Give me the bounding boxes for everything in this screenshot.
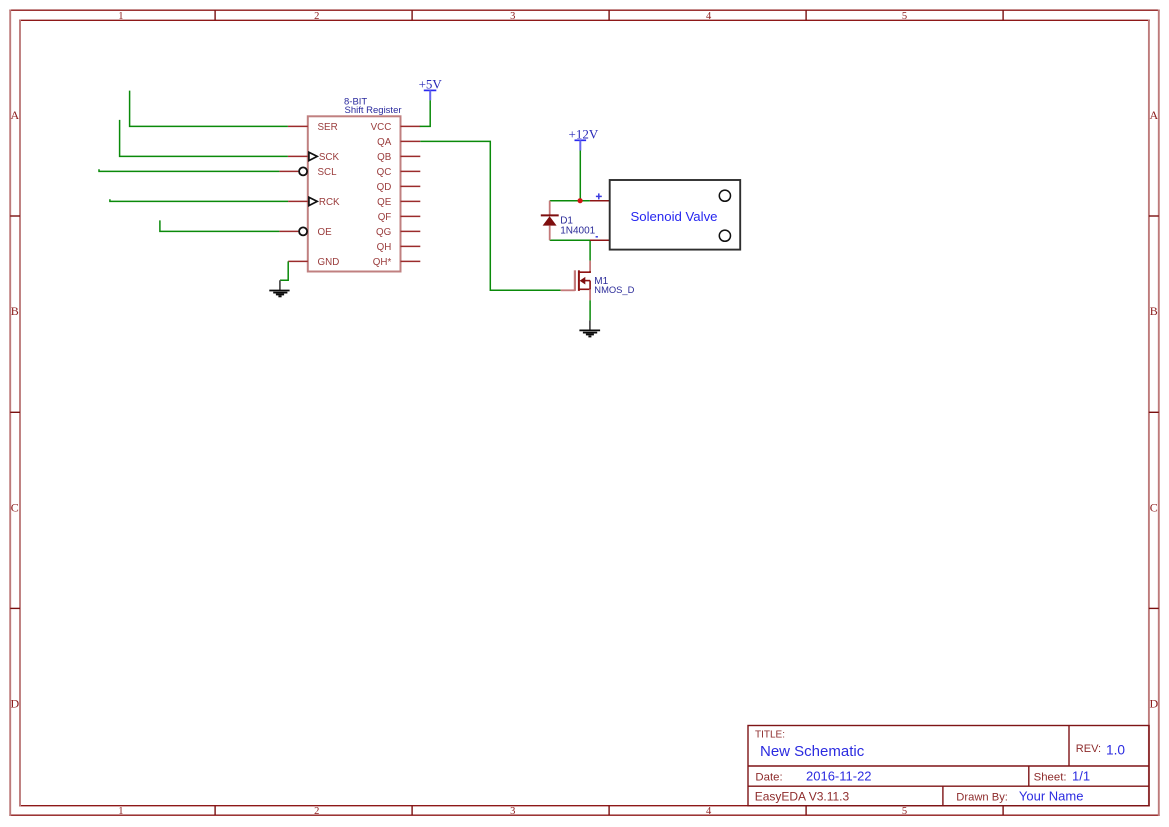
wire +12V down to node (579, 151, 581, 201)
diode D1 bottom pin (549, 226, 551, 241)
wire diode bottom (550, 239, 590, 241)
transistor M1 gate pin (561, 289, 575, 291)
svg-text:SCK: SCK (319, 152, 340, 163)
transistor M1 bulk lead + arrow (585, 280, 591, 282)
svg-text:VCC: VCC (371, 122, 392, 133)
svg-text:4: 4 (706, 11, 712, 22)
svg-text:B: B (11, 304, 19, 318)
svg-text:2016-11-22: 2016-11-22 (806, 769, 872, 784)
ground symbol (M1) (579, 330, 600, 336)
pin QH* (401, 260, 421, 262)
pin SCL (inverted) (279, 170, 298, 172)
ground symbol (IC) (269, 291, 289, 297)
solenoid valve pin + (590, 200, 610, 202)
svg-text:QA: QA (377, 137, 392, 148)
ruler letters right (1149, 108, 1158, 711)
label + (596, 193, 602, 199)
svg-text:RCK: RCK (319, 197, 340, 208)
ground symbol stub (M1) (589, 320, 591, 330)
pin VCC (401, 125, 421, 127)
solenoid valve hole top (719, 190, 730, 201)
pin SCK (clock) (288, 155, 308, 157)
pin QC (401, 170, 421, 172)
svg-text:Shift Register: Shift Register (345, 105, 402, 116)
svg-text:QC: QC (377, 167, 392, 178)
ruler ticks bottom (215, 806, 1003, 816)
title block frame (748, 726, 1149, 806)
diode D1 top pin (549, 201, 551, 216)
svg-text:OE: OE (318, 227, 333, 238)
svg-text:A: A (1149, 108, 1158, 122)
pin SER (288, 125, 308, 127)
transistor M1 drain lead (579, 271, 590, 272)
svg-text:5: 5 (902, 11, 907, 22)
svg-text:QH: QH (377, 242, 392, 253)
wire to SER (130, 91, 288, 127)
ground symbol stub (IC) (279, 280, 281, 290)
pin RCK (clock) (288, 200, 308, 202)
ruler numbers top (118, 11, 907, 22)
wire node to diode top (550, 200, 590, 202)
wire VCC to +5V (420, 100, 430, 126)
svg-text:QF: QF (378, 212, 392, 223)
pin QE (401, 200, 421, 202)
diode D1 triangle (543, 216, 557, 225)
svg-text:D: D (10, 697, 19, 711)
label - (596, 236, 598, 238)
svg-text:GND: GND (318, 257, 340, 268)
svg-text:3: 3 (510, 806, 515, 817)
pin QA (401, 140, 421, 142)
wire QA to M1 gate (420, 141, 560, 290)
junction node (578, 198, 583, 203)
pin QH (401, 245, 421, 247)
IC U1 8-bit shift register box (308, 116, 401, 271)
solenoid valve box (610, 180, 741, 250)
transistor M1 channel bar (578, 270, 580, 291)
svg-text:Date:: Date: (755, 772, 782, 784)
diode D1 cathode bar (541, 214, 559, 216)
svg-text:2: 2 (314, 806, 319, 817)
svg-text:B: B (1150, 304, 1158, 318)
svg-text:New Schematic: New Schematic (760, 743, 865, 760)
power +5V symbol (419, 76, 443, 100)
svg-text:3: 3 (510, 11, 515, 22)
svg-text:5: 5 (902, 806, 907, 817)
svg-text:1: 1 (118, 806, 123, 817)
svg-text:REV:: REV: (1076, 743, 1101, 755)
wire to OE (160, 220, 280, 231)
pin OE (inverted) (279, 230, 298, 232)
svg-text:Solenoid Valve: Solenoid Valve (631, 209, 718, 224)
pin QD (401, 185, 421, 187)
svg-text:4: 4 (706, 806, 712, 817)
svg-text:1N4001: 1N4001 (560, 225, 595, 236)
pin GND (288, 260, 308, 262)
svg-text:SCL: SCL (318, 167, 338, 178)
wire solenoid- to M1 drain (589, 240, 591, 261)
wire GND pin to ground (280, 261, 288, 280)
svg-text:1: 1 (118, 11, 123, 22)
power +12V symbol (569, 126, 599, 150)
wire M1 source to ground (589, 300, 591, 320)
svg-text:+12V: +12V (569, 126, 599, 141)
svg-text:D: D (1149, 697, 1158, 711)
ruler numbers bottom (118, 806, 907, 817)
svg-text:EasyEDA V3.11.3: EasyEDA V3.11.3 (755, 790, 850, 804)
ruler ticks right (1149, 216, 1159, 608)
transistor M1 source lead (579, 288, 591, 290)
ruler ticks left (10, 216, 20, 608)
wire to SCK (120, 120, 288, 156)
ruler ticks top (215, 10, 1003, 20)
svg-text:QE: QE (377, 197, 392, 208)
svg-text:+5V: +5V (419, 76, 443, 91)
solenoid valve hole bottom (719, 230, 730, 241)
transistor M1 source pin (589, 289, 591, 300)
pin QB (401, 155, 421, 157)
svg-text:1.0: 1.0 (1106, 742, 1125, 757)
transistor M1 gate bar (574, 270, 576, 291)
svg-text:QB: QB (377, 152, 392, 163)
pin QF (401, 215, 421, 217)
svg-text:C: C (11, 500, 19, 514)
ruler letters left (10, 108, 19, 711)
svg-text:2: 2 (314, 11, 319, 22)
svg-text:Your Name: Your Name (1019, 789, 1084, 804)
svg-text:NMOS_D: NMOS_D (594, 284, 634, 295)
svg-text:1/1: 1/1 (1072, 769, 1090, 784)
svg-text:TITLE:: TITLE: (755, 730, 785, 741)
svg-text:A: A (10, 108, 19, 122)
wire to RCK (110, 199, 288, 201)
svg-text:SER: SER (318, 122, 338, 133)
transistor M1 bulk-source vertical (589, 281, 591, 290)
svg-text:Sheet:: Sheet: (1034, 772, 1067, 784)
svg-text:C: C (1150, 500, 1158, 514)
svg-text:QG: QG (376, 227, 391, 238)
solenoid valve pin - (590, 239, 610, 241)
svg-text:QH*: QH* (373, 257, 392, 268)
transistor M1 drain pin (589, 261, 591, 271)
pin QG (401, 230, 421, 232)
svg-text:Drawn By:: Drawn By: (956, 792, 1008, 804)
wire to SCL (99, 169, 279, 171)
svg-text:QD: QD (377, 182, 392, 193)
